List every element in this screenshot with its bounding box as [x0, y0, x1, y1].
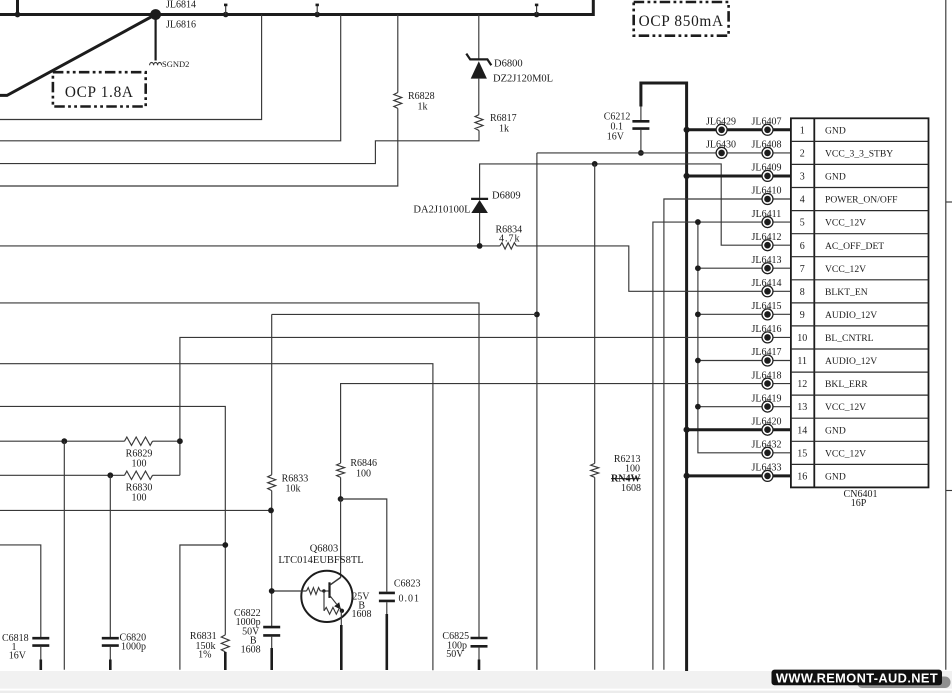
- svg-text:VCC_12V: VCC_12V: [825, 264, 866, 275]
- link JL6411: [762, 217, 773, 228]
- svg-text:BLKT_EN: BLKT_EN: [825, 287, 868, 298]
- svg-text:R6846: R6846: [350, 458, 377, 469]
- svg-text:C6823: C6823: [394, 578, 421, 589]
- svg-text:JL6411: JL6411: [752, 209, 782, 220]
- resistor R6831: [221, 635, 229, 652]
- svg-text:0.01: 0.01: [399, 593, 421, 604]
- wire R6213 top from AC_OFF_DET: [594, 164, 596, 464]
- svg-text:JL6410: JL6410: [752, 186, 782, 197]
- node stub C on rail: [534, 12, 540, 18]
- wire AC_OFF_DET: D6809 cathode up, right, down to pin6 row: [480, 164, 791, 245]
- svg-text:OCP 850mA: OCP 850mA: [639, 13, 724, 30]
- wire GND row14 thick: [687, 428, 791, 431]
- svg-text:JL6407: JL6407: [752, 117, 782, 128]
- link JL6412: [762, 240, 773, 251]
- resistor R6828: [397, 15, 399, 93]
- svg-text:R6833: R6833: [282, 473, 309, 484]
- svg-text:AC_OFF_DET: AC_OFF_DET: [825, 241, 884, 252]
- svg-text:16V: 16V: [607, 131, 625, 142]
- wire POWER_ON/OFF row4 drop x663.9: [664, 199, 791, 670]
- svg-text:GND: GND: [825, 425, 846, 436]
- connector row divider 3: [791, 187, 929, 189]
- wire x64.3 drop to bottom: [63, 441, 65, 670]
- svg-text:JL6415: JL6415: [752, 301, 782, 312]
- link JL6414: [762, 286, 773, 297]
- wire row11 from VCC vertical: [698, 360, 791, 362]
- svg-text:R6828: R6828: [408, 91, 435, 102]
- svg-text:VCC_3_3_STBY: VCC_3_3_STBY: [825, 149, 893, 160]
- svg-text:10: 10: [797, 333, 807, 344]
- offpage C6820 thick stub: [109, 660, 112, 671]
- offpage C6823 thick stub: [385, 614, 388, 670]
- wire sheet-edge bracket right: [945, 0, 947, 670]
- svg-text:VCC_12V: VCC_12V: [825, 218, 866, 229]
- svg-text:JL6408: JL6408: [752, 140, 782, 151]
- svg-text:GND: GND: [825, 472, 846, 483]
- wire SGND2 lead: [155, 15, 157, 61]
- svg-text:JL6417: JL6417: [752, 347, 782, 358]
- svg-text:16P: 16P: [851, 498, 867, 509]
- wire thick diagonal to left edge: [0, 15, 156, 96]
- wire GND bus top corner + capacitor C6212 top lead: [641, 83, 687, 672]
- svg-text:2: 2: [800, 149, 805, 160]
- svg-text:JL6418: JL6418: [752, 370, 782, 381]
- svg-text:1k: 1k: [418, 102, 428, 113]
- connector row divider 4: [791, 210, 929, 212]
- svg-text:WWW.REMONT-AUD.NET: WWW.REMONT-AUD.NET: [776, 671, 938, 686]
- svg-text:5: 5: [800, 218, 805, 229]
- ground SGND2 symbol: [150, 62, 162, 65]
- node x536.9 on y314.4 net: [534, 312, 540, 318]
- connector row divider 12: [791, 394, 929, 396]
- svg-text:4: 4: [800, 195, 805, 206]
- node internal base: [322, 589, 325, 592]
- node VCC vertical row11: [695, 358, 701, 364]
- connector row divider 8: [791, 302, 929, 304]
- svg-text:JL6412: JL6412: [752, 232, 782, 243]
- wire + resistor R6829 row y441.2: [0, 440, 125, 442]
- svg-text:AUDIO_12V: AUDIO_12V: [825, 356, 877, 367]
- wire y510.4 from left edge: [0, 509, 271, 511]
- svg-text:1608: 1608: [352, 609, 372, 620]
- offpage C6825 thick stub: [478, 660, 481, 671]
- svg-text:JL6409: JL6409: [752, 163, 782, 174]
- link JL6432: [762, 447, 773, 458]
- resistor base-emitter R2 of Q6803: [323, 591, 325, 611]
- svg-text:7: 7: [800, 264, 805, 275]
- svg-text:VCC_12V: VCC_12V: [825, 448, 866, 459]
- link JL6413: [762, 263, 773, 274]
- node bus row16: [684, 473, 690, 479]
- link JL6429: [716, 124, 727, 135]
- svg-text:GND: GND: [825, 125, 846, 136]
- link JL6430: [716, 147, 727, 158]
- svg-text:1%: 1%: [198, 649, 211, 660]
- resistor R6817: [475, 115, 483, 131]
- node emitter: [340, 609, 344, 613]
- connector row divider 7: [791, 279, 929, 281]
- svg-text:JL6814: JL6814: [166, 0, 196, 11]
- svg-text:11: 11: [797, 356, 807, 367]
- svg-text:D6809: D6809: [492, 190, 521, 201]
- connector row divider 5: [791, 233, 929, 235]
- offpage C6818 thick stub: [39, 660, 42, 671]
- svg-text:1608: 1608: [621, 483, 641, 494]
- svg-text:JL6429: JL6429: [706, 117, 736, 128]
- svg-text:100: 100: [132, 492, 147, 503]
- offpage C6822 thick stub: [270, 648, 273, 670]
- wire emitter down: [340, 611, 342, 625]
- wire base line: [272, 590, 307, 592]
- svg-text:VCC_12V: VCC_12V: [825, 402, 866, 413]
- connector row divider 11: [791, 371, 929, 373]
- connector row divider 13: [791, 417, 929, 419]
- link JL6417: [762, 355, 773, 366]
- svg-text:LTC014EUBFS8TL: LTC014EUBFS8TL: [278, 555, 363, 566]
- svg-text:BL_CNTRL: BL_CNTRL: [825, 333, 874, 344]
- wire row7 from VCC vertical: [698, 267, 791, 269]
- link JL6409: [762, 170, 773, 181]
- connector row divider 15: [791, 463, 929, 465]
- svg-text:OCP 1.8A: OCP 1.8A: [65, 84, 134, 101]
- node collector: [338, 496, 344, 502]
- connector CN6401 box: [791, 118, 929, 487]
- connector row divider 14: [791, 440, 929, 442]
- svg-text:13: 13: [797, 402, 807, 413]
- node VCC vertical row5: [695, 219, 701, 225]
- wire net4: R6828 bottom to left edge y186: [0, 108, 398, 186]
- connector row divider 2: [791, 163, 929, 165]
- offpage R6831 thick stub: [224, 652, 227, 670]
- wire corner x179.9 y545 + node x225.3: [180, 545, 225, 670]
- wire stub up-left: [16, 0, 19, 15]
- node bus row3: [684, 173, 690, 179]
- link JL6433: [762, 470, 773, 481]
- svg-text:4.7k: 4.7k: [499, 234, 521, 245]
- transistor Q6803 collector stroke: [330, 577, 342, 585]
- wire net2: rail drop x340.7 then left at y140.8: [0, 15, 341, 141]
- link JL6408: [762, 147, 773, 158]
- resistor R6213: [591, 463, 599, 477]
- wire row13 from VCC vertical: [698, 406, 791, 408]
- wire + resistor R6830 row y475.3: [0, 474, 125, 476]
- wire collector down into Q6803: [330, 499, 341, 585]
- svg-text:R6817: R6817: [490, 113, 517, 124]
- wire GND row3 thick: [687, 174, 791, 177]
- node stub B on rail: [314, 12, 320, 18]
- connector row divider 10: [791, 348, 929, 350]
- wire C6818 net from left edge y544.9: [0, 545, 41, 637]
- capacitor C6820: [102, 637, 119, 640]
- wire VCC vertical x697.9 rows5-15: [698, 222, 791, 453]
- node C6212 bottom on row2 net: [638, 150, 644, 156]
- wire R6846 bottom to collector node: [340, 477, 342, 499]
- node VCC vertical row7: [695, 265, 701, 271]
- watermark strip: [0, 671, 952, 689]
- svg-text:100: 100: [356, 469, 371, 480]
- svg-text:JL6416: JL6416: [752, 324, 782, 335]
- link JL6407: [762, 124, 773, 135]
- watermark shadow: [857, 677, 951, 689]
- svg-text:JL6419: JL6419: [752, 393, 782, 404]
- svg-text:JL6420: JL6420: [752, 416, 782, 427]
- link JL6410: [762, 194, 773, 205]
- wire BLKT_EN net with resistor R6834 in series: [0, 245, 500, 247]
- diode D6809 (DA2J10100L): [471, 198, 488, 200]
- resistor R6846: [337, 463, 345, 477]
- link JL6420: [762, 424, 773, 435]
- node VCC vertical row9: [695, 311, 701, 317]
- offpage emitter thick stub: [340, 625, 343, 670]
- resistor base R1 of Q6803: [307, 588, 321, 595]
- wire x110.3 drop to C6820: [109, 475, 111, 637]
- wire R6833 top from y314.4: [271, 314, 273, 474]
- link JL6415: [762, 309, 773, 320]
- svg-text:8: 8: [800, 287, 805, 298]
- wire net1: rail drop x261.6 then left at y119.5: [0, 15, 262, 120]
- connector row divider 1: [791, 140, 929, 142]
- svg-text:16: 16: [797, 472, 807, 483]
- svg-text:POWER_ON/OFF: POWER_ON/OFF: [825, 195, 898, 206]
- node stub A on rail: [223, 12, 229, 18]
- svg-text:AUDIO_12V: AUDIO_12V: [825, 310, 877, 321]
- svg-text:9: 9: [800, 310, 805, 321]
- svg-text:JL6413: JL6413: [752, 255, 782, 266]
- capacitor C6825: [471, 637, 488, 640]
- wire collector node to C6823 top: [341, 499, 387, 592]
- node bus row14: [684, 427, 690, 433]
- OCP 850mA dashed box: [634, 2, 729, 36]
- svg-text:D6800: D6800: [494, 59, 523, 70]
- svg-text:10k: 10k: [286, 484, 301, 495]
- wire net to C6825: y302.9 then down x479: [0, 303, 479, 638]
- connector row divider 6: [791, 256, 929, 258]
- link JL6418: [762, 378, 773, 389]
- transistor Q6803 base bar: [328, 582, 330, 598]
- wire net y363.7 down x432.9: [0, 364, 433, 671]
- capacitor C6823: [379, 592, 395, 595]
- wire 12V rail (thick top bus): [0, 0, 593, 15]
- OCP 1.8A dashed box: [53, 72, 146, 106]
- wire BKL_ERR row12 from R6846 top: [341, 384, 791, 464]
- wire VCC_3_3_STBY row2 + drop at x536.9: [537, 152, 791, 154]
- node D6809 anode on BLKT_EN: [477, 243, 483, 249]
- svg-text:16V: 16V: [9, 650, 27, 661]
- svg-text:JL6430: JL6430: [706, 140, 736, 151]
- svg-text:3: 3: [800, 172, 805, 183]
- wire R6833 bottom through y510.4 to base node and C6822: [271, 491, 273, 627]
- node junction at x17: [15, 12, 21, 18]
- svg-text:Q6803: Q6803: [310, 543, 339, 554]
- node base feed: [269, 588, 275, 594]
- wire net y406.4 down x225.3 to R6831: [0, 406, 225, 635]
- resistor R6833: [268, 475, 276, 491]
- svg-text:DZ2J120M0L: DZ2J120M0L: [493, 74, 553, 85]
- svg-text:JL6414: JL6414: [752, 278, 782, 289]
- svg-text:100: 100: [132, 458, 147, 469]
- svg-text:1608: 1608: [241, 644, 261, 655]
- svg-text:GND: GND: [825, 172, 846, 183]
- wire base feed: y314.4 from x271.7 to x536.9: [272, 313, 537, 315]
- node on AC_OFF_DET at R6213 tap: [592, 161, 598, 167]
- svg-text:14: 14: [797, 425, 807, 436]
- svg-text:50V: 50V: [446, 649, 464, 660]
- svg-text:JL6816: JL6816: [166, 19, 196, 30]
- wire net3: R6817 bottom step to left edge y163.6: [0, 131, 479, 164]
- svg-text:1k: 1k: [499, 124, 509, 135]
- svg-text:15: 15: [797, 448, 807, 459]
- svg-text:1000p: 1000p: [121, 642, 146, 653]
- svg-text:DA2J10100L: DA2J10100L: [413, 205, 470, 216]
- node bus row1: [684, 127, 690, 133]
- link JL6416: [762, 332, 773, 343]
- svg-text:6: 6: [800, 241, 805, 252]
- svg-text:SGND2: SGND2: [162, 59, 189, 69]
- link JL6419: [762, 401, 773, 412]
- capacitor C6822: [263, 626, 280, 629]
- diode D6800 (zener DZ2J120M0L): [478, 15, 480, 60]
- wire row9 from VCC vertical: [698, 313, 791, 315]
- connector row divider 9: [791, 325, 929, 327]
- wire GND row1 thick: [687, 128, 791, 131]
- svg-text:JL6433: JL6433: [752, 463, 782, 474]
- svg-text:BKL_ERR: BKL_ERR: [825, 379, 868, 390]
- wire VCC_12V row5 drop x652.9: [653, 222, 791, 670]
- svg-text:12: 12: [797, 379, 807, 390]
- wire BL_CNTRL row10 from x179.9: [180, 337, 791, 475]
- transistor Q6803 circle: [301, 571, 352, 622]
- capacitor C6212: [640, 107, 642, 121]
- svg-text:JL6432: JL6432: [752, 440, 782, 451]
- node JL6814/JL6816 big junction: [150, 9, 161, 20]
- capacitor C6818: [32, 637, 49, 640]
- wire GND row16 thick: [687, 474, 791, 477]
- transistor Q6803 emitter stroke + arrow: [330, 595, 337, 604]
- watermark bar: [772, 670, 943, 686]
- svg-text:1: 1: [800, 125, 805, 136]
- node VCC vertical row13: [695, 404, 701, 410]
